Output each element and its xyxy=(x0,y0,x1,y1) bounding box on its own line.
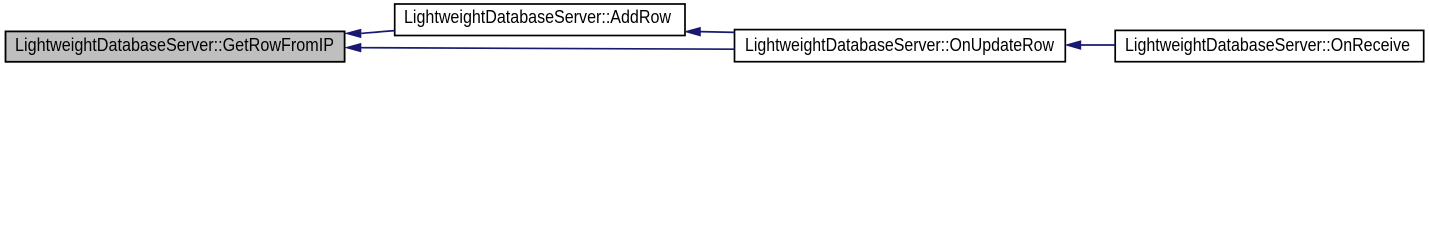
edge OnUpdateRow -> GetRowFromIP xyxy=(361,48,735,50)
svg-text:LightweightDatabaseServer::Add: LightweightDatabaseServer::AddRow xyxy=(404,7,672,27)
arrowhead OnUpdateRow -> GetRowFromIP xyxy=(346,44,361,52)
node box OnUpdateRow xyxy=(735,30,1066,62)
edge AddRow -> GetRowFromIP xyxy=(361,31,394,34)
svg-text:LightweightDatabaseServer::OnU: LightweightDatabaseServer::OnUpdateRow xyxy=(745,35,1055,55)
svg-text:LightweightDatabaseServer::Get: LightweightDatabaseServer::GetRowFromIP xyxy=(15,35,334,55)
arrowhead AddRow -> GetRowFromIP xyxy=(346,29,361,37)
edge OnUpdateRow -> AddRow xyxy=(700,31,734,34)
node box AddRow xyxy=(395,4,685,36)
arrowhead OnUpdateRow -> AddRow xyxy=(685,28,700,36)
svg-text:LightweightDatabaseServer::OnR: LightweightDatabaseServer::OnReceive xyxy=(1125,35,1410,55)
arrowhead OnReceive -> OnUpdateRow xyxy=(1066,41,1081,49)
node box OnReceive xyxy=(1115,30,1424,61)
node box GetRowFromIP (current, grey) xyxy=(6,31,345,61)
edge OnReceive -> OnUpdateRow xyxy=(1081,44,1116,46)
